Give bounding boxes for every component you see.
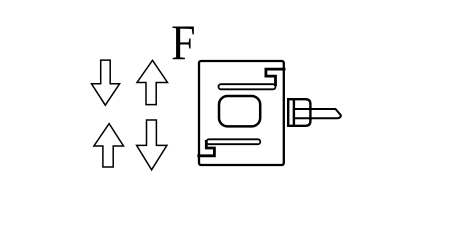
arrow up (bottom-left) [94, 124, 124, 167]
top slot [219, 84, 276, 89]
bottom hook [197, 140, 214, 156]
cable gland nut [288, 99, 310, 126]
svg-text:F: F [171, 15, 195, 70]
gland nut right edge [309, 107, 311, 120]
top hook [266, 69, 286, 86]
center hole [219, 96, 260, 126]
arrow down (top-left) [92, 60, 120, 105]
arrow down (bottom-right) [137, 120, 167, 170]
gland collar divider [293, 99, 295, 126]
load cell body [199, 61, 284, 165]
arrow up (top-right) [137, 60, 168, 104]
bottom slot [207, 139, 261, 144]
cable [294, 109, 341, 118]
